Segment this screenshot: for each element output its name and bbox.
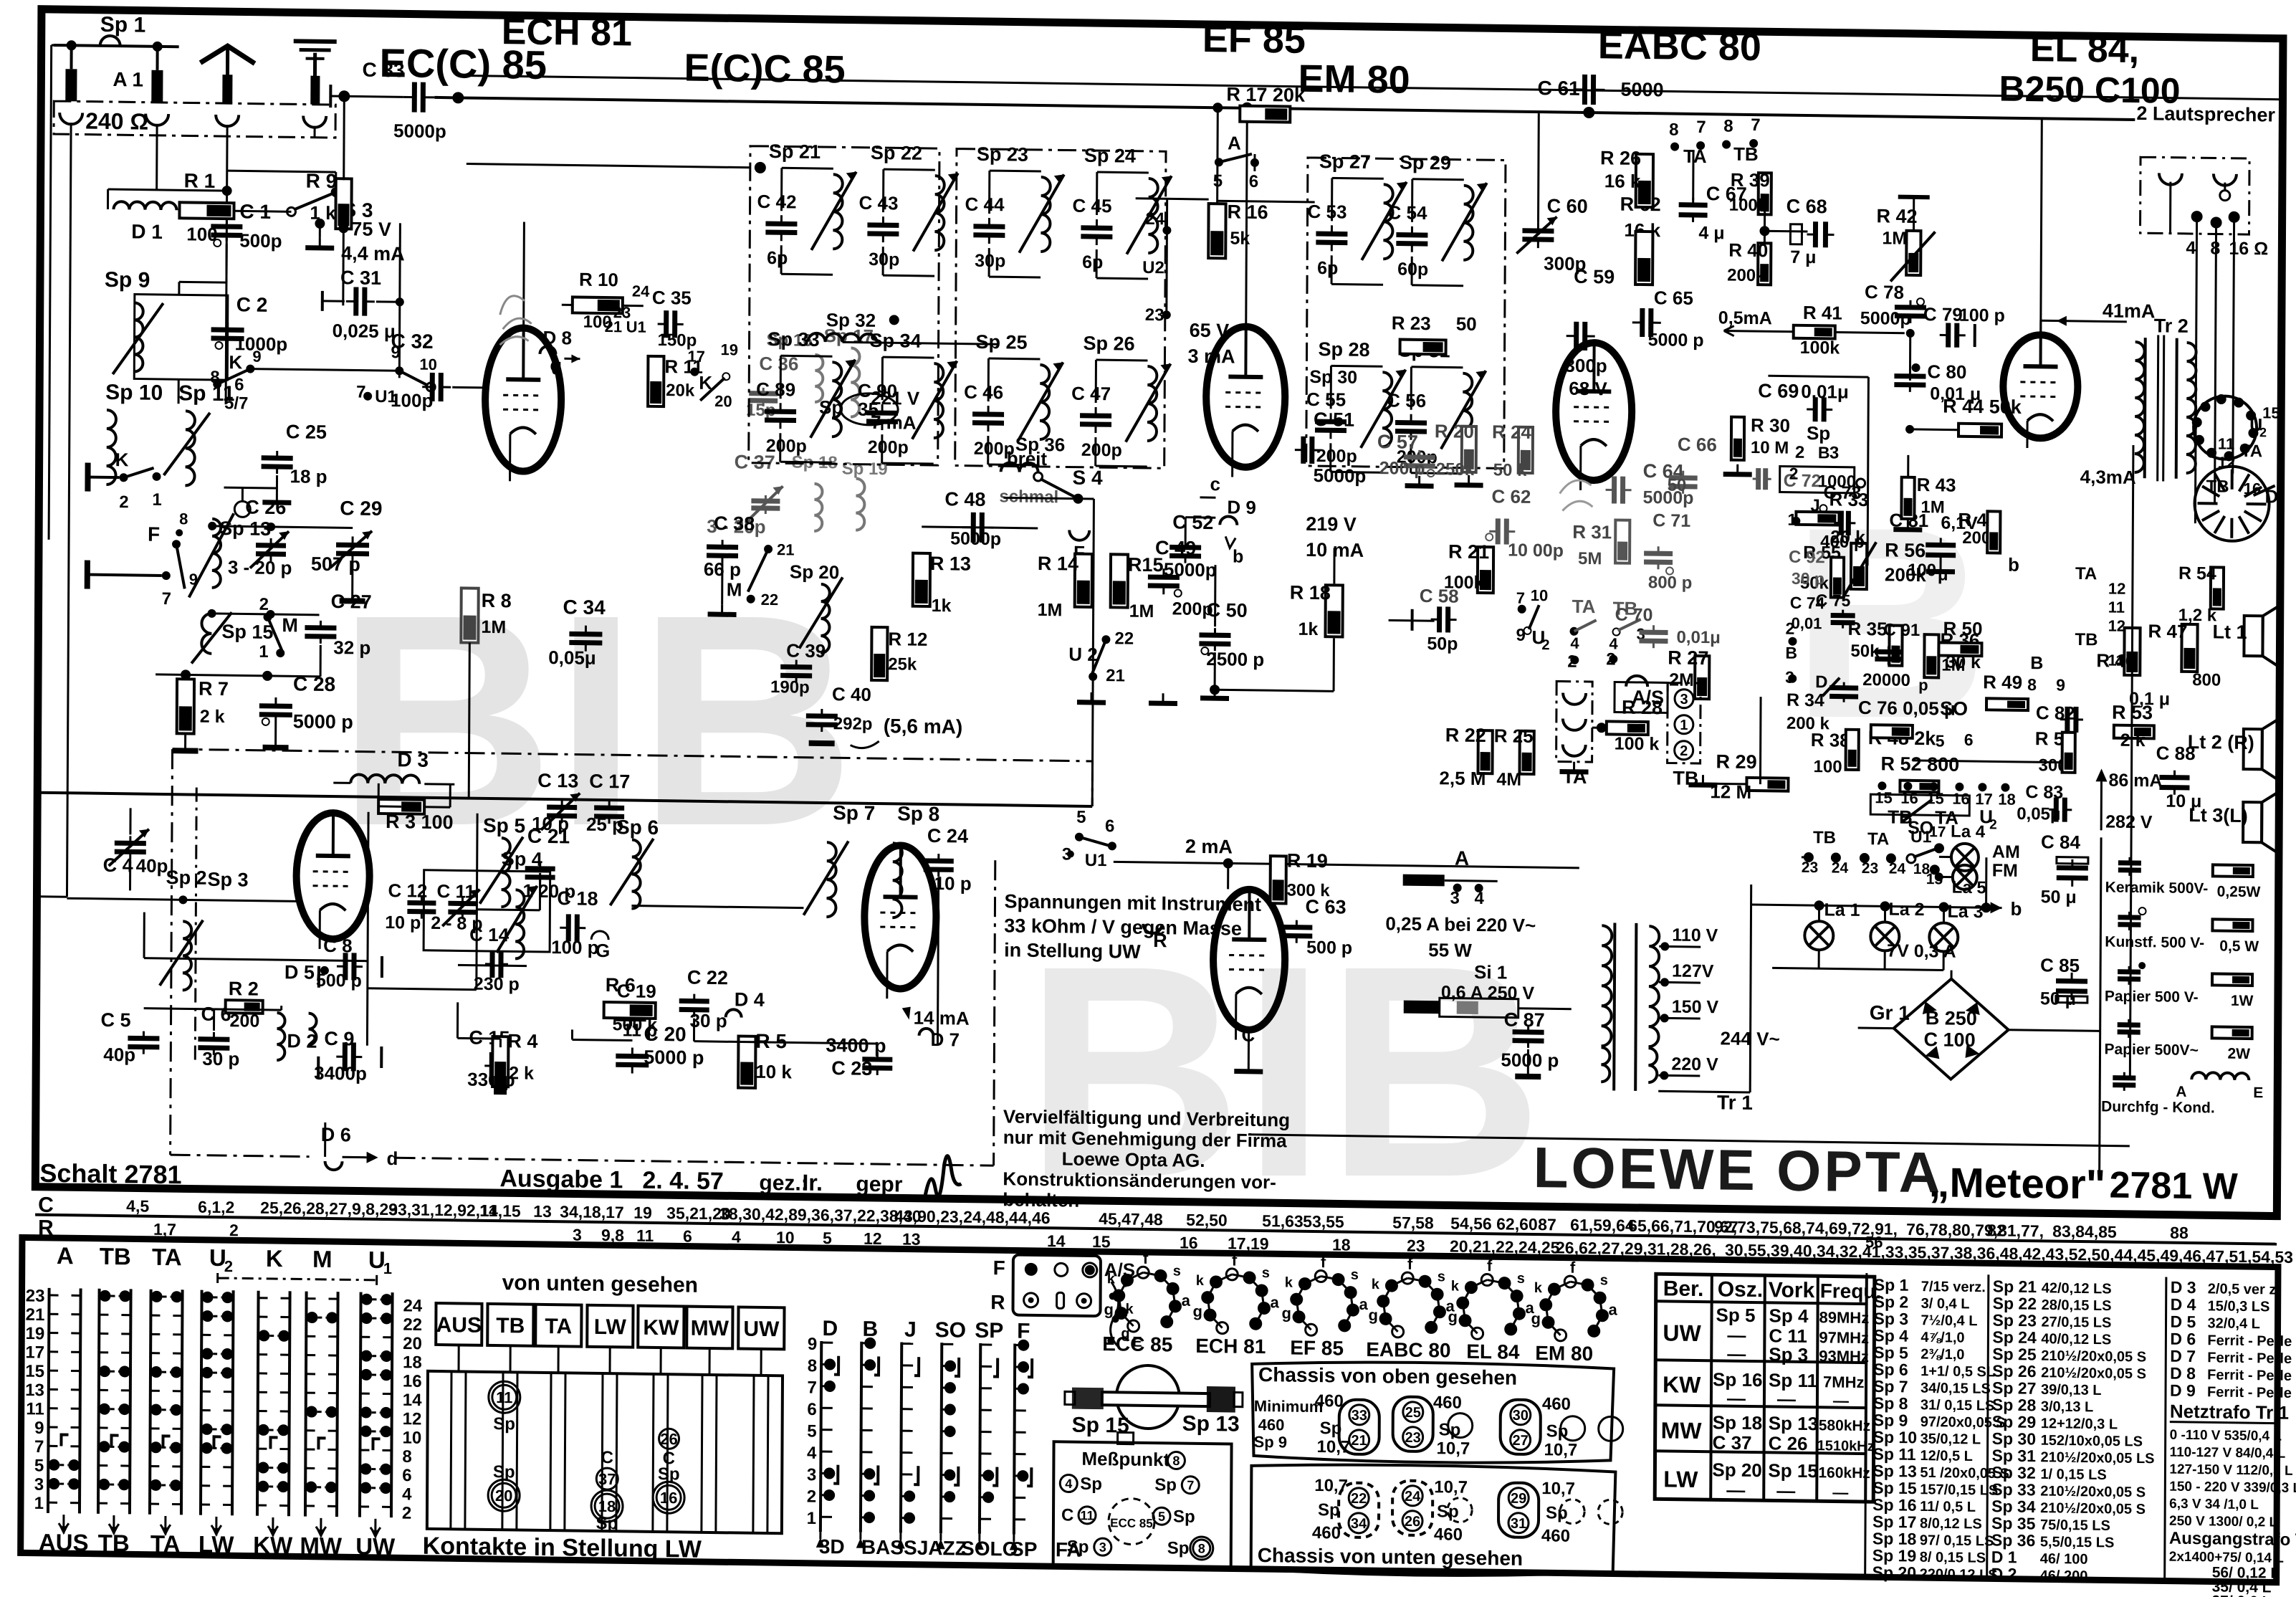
small column arrow <box>816 1538 825 1548</box>
svg-text:10,7: 10,7 <box>1541 1479 1575 1499</box>
svg-text:C 60: C 60 <box>1547 195 1588 217</box>
svg-text:50: 50 <box>1668 475 1687 495</box>
svg-text:Sp: Sp <box>1318 1500 1340 1520</box>
svg-text:C 2: C 2 <box>236 293 268 316</box>
svg-text:2: 2 <box>1795 443 1805 462</box>
resistor R10 100 <box>573 297 623 313</box>
box Sp9 C2 <box>134 294 228 380</box>
svg-text:5000p: 5000p <box>1860 308 1911 329</box>
svg-text:17: 17 <box>1929 824 1946 840</box>
svg-text:200 k: 200 k <box>1786 714 1830 734</box>
svg-text:g: g <box>1281 1304 1291 1322</box>
svg-text:f: f <box>1407 1255 1413 1273</box>
svg-text:0,01: 0,01 <box>1792 614 1822 633</box>
svg-text:C 56: C 56 <box>1387 389 1426 411</box>
column arrow K <box>268 1517 278 1533</box>
svg-text:C 33: C 33 <box>362 59 404 82</box>
svg-text:Papier 500 V-: Papier 500 V- <box>2105 988 2199 1006</box>
svg-text:SP: SP <box>1010 1538 1038 1560</box>
svg-text:0,05μ: 0,05μ <box>548 647 596 669</box>
svg-text:14: 14 <box>1047 1231 1066 1250</box>
ground TA box <box>1573 762 1575 772</box>
svg-text:9: 9 <box>34 1419 44 1438</box>
ground stub <box>314 126 316 138</box>
svg-text:MW: MW <box>300 1532 343 1559</box>
svg-text:D 8: D 8 <box>2170 1364 2196 1383</box>
svg-text:A: A <box>2176 1084 2186 1100</box>
svg-text:Sp 9: Sp 9 <box>1254 1433 1288 1451</box>
svg-text:61,59,64: 61,59,64 <box>1570 1216 1635 1235</box>
svg-text:2,5 M: 2,5 M <box>1439 767 1486 789</box>
svg-text:b: b <box>2010 898 2022 920</box>
svg-text:Sp 15: Sp 15 <box>1768 1459 1818 1482</box>
svg-text:500p: 500p <box>239 229 282 252</box>
tube EM80 envelope <box>1213 889 1286 1030</box>
svg-text:20000: 20000 <box>1862 670 1910 690</box>
svg-text:100k: 100k <box>1729 196 1768 216</box>
svg-text:34/0,15 LS: 34/0,15 LS <box>1920 1381 1991 1397</box>
svg-text:15: 15 <box>1092 1232 1111 1251</box>
svg-text:C 66: C 66 <box>1678 434 1717 456</box>
svg-text:5000 p: 5000 p <box>293 710 353 733</box>
TB socket box <box>1668 682 1701 763</box>
svg-text:TA: TA <box>1867 829 1889 849</box>
terminal ring <box>234 501 250 517</box>
svg-text:C 29: C 29 <box>340 497 382 520</box>
svg-text:5: 5 <box>1076 808 1086 827</box>
svg-text:3 - 20 p: 3 - 20 p <box>228 556 292 578</box>
svg-text:2781 W: 2781 W <box>2109 1165 2238 1208</box>
svg-text:13: 13 <box>902 1229 921 1248</box>
svg-text:3: 3 <box>1099 1540 1106 1555</box>
svg-text:R 25: R 25 <box>1494 725 1534 747</box>
capacitor C87 5000p <box>1513 1029 1544 1035</box>
svg-text:D 2: D 2 <box>287 1030 317 1052</box>
svg-text:—: — <box>1777 1388 1796 1409</box>
svg-text:39/0,13 L: 39/0,13 L <box>2041 1382 2102 1398</box>
svg-text:50 μ: 50 μ <box>2041 887 2077 907</box>
svg-text:23: 23 <box>1145 305 1164 325</box>
circled Sp 11 <box>492 1385 517 1409</box>
svg-text:TB: TB <box>496 1314 525 1338</box>
capacitor C38 66p <box>707 544 738 550</box>
svg-text:A: A <box>57 1242 74 1269</box>
svg-text:R 16: R 16 <box>1227 201 1268 223</box>
svg-text:0,5 W: 0,5 W <box>2219 938 2259 955</box>
svg-text:s: s <box>1173 1263 1181 1279</box>
svg-text:Frequ.: Frequ. <box>1820 1279 1882 1302</box>
svg-text:17: 17 <box>25 1343 44 1362</box>
svg-text:Sp 9: Sp 9 <box>105 268 150 292</box>
svg-text:C 26: C 26 <box>245 496 286 518</box>
svg-text:25,26,28,27,9,8,29: 25,26,28,27,9,8,29 <box>260 1198 398 1219</box>
svg-text:4 μ: 4 μ <box>1698 223 1724 243</box>
svg-text:7: 7 <box>1516 589 1525 607</box>
svg-text:7: 7 <box>356 383 366 402</box>
svg-text:2 k: 2 k <box>200 707 225 727</box>
svg-text:46/ 200: 46/ 200 <box>2040 1568 2088 1584</box>
capacitor C52 5000p <box>1169 545 1201 550</box>
capacitor C50 2500p <box>1199 632 1230 638</box>
svg-text:15: 15 <box>1875 788 1893 806</box>
switch contact column A0 <box>48 1288 49 1513</box>
svg-text:C 84: C 84 <box>2041 831 2081 853</box>
svg-text:K: K <box>115 449 129 470</box>
unten capsule Sp29/31 <box>1498 1482 1539 1538</box>
capacitor C31 <box>353 287 358 316</box>
svg-text:31: 31 <box>1511 1516 1526 1532</box>
svg-text:Sp 30: Sp 30 <box>1309 367 1357 388</box>
svg-text:Tr 2: Tr 2 <box>2154 315 2189 337</box>
svg-text:M: M <box>727 578 742 600</box>
capacitor C40 292p <box>806 713 838 719</box>
svg-text:4: 4 <box>732 1227 741 1246</box>
capacitor C9 3400p <box>343 1042 348 1071</box>
svg-text:25k: 25k <box>888 654 917 674</box>
svg-text:13: 13 <box>533 1202 552 1221</box>
svg-text:Netztrafo Tr 1: Netztrafo Tr 1 <box>2170 1401 2289 1424</box>
capacitor C35 150p <box>664 310 669 338</box>
svg-text:24: 24 <box>403 1296 422 1315</box>
svg-text:210½/20x0,05 S: 210½/20x0,05 S <box>2041 1365 2146 1382</box>
svg-text:Durchfg - Kond.: Durchfg - Kond. <box>2101 1098 2215 1116</box>
svg-text:6p: 6p <box>1082 252 1103 272</box>
svg-text:7½/0,4 L: 7½/0,4 L <box>1920 1312 1977 1329</box>
svg-text:4: 4 <box>1065 1477 1072 1491</box>
svg-text:31/ 0,15 LS: 31/ 0,15 LS <box>1920 1397 1995 1414</box>
svg-text:MW: MW <box>691 1317 730 1341</box>
transformer Tr1 <box>1614 923 1615 1090</box>
svg-text:C 37: C 37 <box>1713 1431 1752 1454</box>
svg-text:5: 5 <box>1936 731 1945 750</box>
wire EF85 region <box>1218 201 1315 202</box>
resistor R12 25k <box>871 627 887 680</box>
svg-text:23: 23 <box>26 1286 45 1305</box>
svg-text:11: 11 <box>496 1388 512 1406</box>
svg-text:R 40: R 40 <box>1728 239 1768 262</box>
svg-text:35: 35 <box>858 399 879 420</box>
svg-text:s: s <box>1600 1272 1608 1288</box>
small contact column SO <box>941 1343 942 1533</box>
svg-text:460: 460 <box>1434 1525 1463 1545</box>
svg-text:Lt 1: Lt 1 <box>2213 621 2247 643</box>
svg-text:2. 4. 57: 2. 4. 57 <box>642 1167 724 1195</box>
svg-text:g: g <box>1531 1310 1541 1327</box>
svg-text:C 92: C 92 <box>1789 548 1825 568</box>
svg-text:8: 8 <box>179 510 188 528</box>
svg-text:83,84,85: 83,84,85 <box>2052 1221 2117 1241</box>
svg-text:10,7: 10,7 <box>1316 1437 1350 1457</box>
svg-text:R 28: R 28 <box>1622 697 1663 719</box>
svg-text:Sp: Sp <box>1154 1475 1177 1494</box>
capacitor C33 5000p <box>412 82 417 113</box>
svg-text:27: 27 <box>1512 1433 1528 1449</box>
svg-text:1: 1 <box>34 1494 44 1513</box>
svg-text:C 11: C 11 <box>436 880 475 902</box>
svg-text:152/10x0,05 LS: 152/10x0,05 LS <box>2041 1433 2143 1450</box>
svg-text:30 p: 30 p <box>690 1010 727 1032</box>
svg-text:R 30: R 30 <box>1751 414 1790 437</box>
svg-text:97MHz: 97MHz <box>1819 1328 1869 1347</box>
svg-text:1+1/ 0,5 SL: 1+1/ 0,5 SL <box>1920 1363 1995 1380</box>
svg-text:18: 18 <box>1998 791 2016 809</box>
svg-text:C 34: C 34 <box>563 596 606 619</box>
svg-text:24: 24 <box>1405 1489 1421 1505</box>
svg-text:210½/20x0,05 S: 210½/20x0,05 S <box>2040 1483 2146 1500</box>
svg-text:C 79: C 79 <box>1923 303 1963 325</box>
svg-text:1k: 1k <box>1298 619 1318 639</box>
svg-text:11: 11 <box>2108 599 2125 616</box>
svg-text:R: R <box>38 1216 54 1240</box>
svg-text:5: 5 <box>34 1456 44 1475</box>
svg-text:18: 18 <box>598 1497 616 1515</box>
svg-text:Sp 4: Sp 4 <box>502 848 542 870</box>
resistor R2 200 <box>226 1000 263 1014</box>
svg-text:6p: 6p <box>1317 258 1338 278</box>
svg-text:200 p: 200 p <box>1379 458 1425 479</box>
wires EABC80 region <box>1594 114 1596 343</box>
capacitor C15 330p <box>489 1052 494 1079</box>
svg-text:C 54: C 54 <box>1388 201 1428 224</box>
svg-text:2: 2 <box>1786 619 1795 638</box>
svg-text:200: 200 <box>229 1011 259 1031</box>
svg-text:U1: U1 <box>626 318 646 335</box>
svg-text:23: 23 <box>1407 1236 1425 1255</box>
svg-text:TA: TA <box>152 1244 182 1271</box>
svg-text:24: 24 <box>1889 861 1906 877</box>
svg-text:TB: TB <box>98 1530 130 1557</box>
svg-text:19: 19 <box>720 340 738 358</box>
svg-text:2 mA: 2 mA <box>1185 836 1233 858</box>
legend Keramik <box>2118 860 2141 865</box>
svg-text:16: 16 <box>403 1372 422 1391</box>
svg-text:D: D <box>822 1317 838 1340</box>
svg-text:C 44: C 44 <box>965 194 1005 216</box>
svg-text:1: 1 <box>259 642 269 662</box>
svg-text:J: J <box>904 1318 917 1342</box>
svg-text:k: k <box>1372 1277 1380 1292</box>
svg-text:16: 16 <box>1180 1234 1198 1252</box>
svg-text:D 3: D 3 <box>397 748 429 771</box>
dash-dot IF box 3 <box>1306 158 1506 469</box>
svg-text:200p: 200p <box>1081 440 1122 461</box>
svg-text:460: 460 <box>1312 1523 1341 1543</box>
svg-text:TA: TA <box>1683 146 1707 167</box>
svg-text:8: 8 <box>808 1356 818 1376</box>
svg-text:TB: TB <box>2075 630 2098 649</box>
svg-text:D 4: D 4 <box>2171 1295 2196 1314</box>
resistor R40 200k <box>1758 243 1771 285</box>
svg-text:2: 2 <box>402 1504 412 1523</box>
svg-text:210½/20x0,05 S: 210½/20x0,05 S <box>2041 1348 2146 1365</box>
svg-text:Vork: Vork <box>1769 1278 1815 1302</box>
svg-text:C 26: C 26 <box>1769 1432 1808 1454</box>
svg-text:LW: LW <box>198 1531 235 1558</box>
oben capsule Sp25/23 <box>1393 1396 1433 1451</box>
svg-text:B: B <box>1818 443 1830 462</box>
svg-text:D 5: D 5 <box>2170 1312 2196 1331</box>
svg-text:C 21: C 21 <box>527 825 570 848</box>
resistor R6 500k <box>604 1002 656 1019</box>
svg-text:7: 7 <box>1751 115 1761 135</box>
svg-text:6: 6 <box>1105 816 1115 836</box>
svg-text:TA: TA <box>545 1315 572 1338</box>
svg-text:2: 2 <box>1789 464 1799 483</box>
svg-text:200p: 200p <box>868 437 909 458</box>
Tr1 taps <box>1659 945 1701 948</box>
svg-text:5000: 5000 <box>1620 79 1663 101</box>
svg-text:34: 34 <box>1351 1516 1367 1532</box>
svg-text:μ: μ <box>1938 565 1948 584</box>
tube ECH81 envelope <box>485 328 562 472</box>
svg-text:240 Ω: 240 Ω <box>85 108 148 135</box>
svg-text:3400p: 3400p <box>314 1062 367 1084</box>
svg-text:EF 85: EF 85 <box>1202 17 1306 62</box>
resistor R30 10M <box>1731 417 1744 460</box>
svg-text:La 2: La 2 <box>1888 900 1924 920</box>
svg-text:3: 3 <box>573 1225 582 1244</box>
rotary switch circle 1 <box>2194 396 2257 459</box>
svg-text:22: 22 <box>1114 629 1134 648</box>
svg-text:20k: 20k <box>666 381 695 401</box>
capacitor C24 10p <box>924 858 954 864</box>
gray tube EABC80 lower region <box>1559 480 1592 511</box>
svg-text:C 85: C 85 <box>2040 954 2080 976</box>
column arrow TA <box>161 1516 171 1532</box>
svg-text:20: 20 <box>714 392 732 410</box>
svg-text:R 39: R 39 <box>1731 169 1770 191</box>
svg-text:Sp 9: Sp 9 <box>1873 1411 1908 1430</box>
Messpunkt box <box>1053 1441 1232 1567</box>
svg-text:2: 2 <box>229 1221 239 1239</box>
svg-text:Sp 6: Sp 6 <box>1873 1360 1908 1379</box>
svg-text:Sp 26: Sp 26 <box>1084 333 1135 355</box>
svg-text:a: a <box>1359 1295 1369 1313</box>
svg-text:1 k: 1 k <box>310 202 336 224</box>
svg-text:C 58: C 58 <box>1420 585 1459 607</box>
dial cord assembly Sp15 Sp13 <box>1116 1365 1180 1429</box>
rotary switch circle 2 sunburst <box>2194 466 2269 541</box>
svg-text:D 1: D 1 <box>1991 1548 2017 1566</box>
svg-text:50: 50 <box>1456 313 1477 335</box>
svg-text:C 51: C 51 <box>1314 409 1354 431</box>
svg-text:a: a <box>1609 1300 1618 1318</box>
svg-text:30: 30 <box>1513 1408 1529 1424</box>
resistor R19 300k <box>1271 856 1286 903</box>
svg-text:8: 8 <box>2210 238 2220 258</box>
svg-text:g: g <box>1192 1302 1202 1320</box>
svg-text:9: 9 <box>808 1335 818 1354</box>
svg-text:s: s <box>1438 1269 1445 1284</box>
svg-text:16 Ω: 16 Ω <box>2229 239 2268 259</box>
svg-text:La 1: La 1 <box>1824 900 1860 920</box>
svg-text:20: 20 <box>495 1487 513 1505</box>
svg-text:1: 1 <box>383 1259 392 1277</box>
svg-text:C 20: C 20 <box>644 1023 686 1046</box>
svg-text:21: 21 <box>777 540 795 558</box>
svg-text:200k: 200k <box>1727 266 1766 286</box>
switch contact column U6 <box>360 1292 361 1517</box>
svg-text:C 22: C 22 <box>687 967 728 989</box>
svg-text:Sp 13: Sp 13 <box>1769 1412 1819 1434</box>
capacitor C13 10p <box>547 804 577 810</box>
svg-text:8/ 0,15 LS: 8/ 0,15 LS <box>1920 1550 1986 1566</box>
svg-text:3: 3 <box>807 1465 817 1484</box>
svg-text:C 13: C 13 <box>537 770 578 792</box>
svg-text:C: C <box>1061 1505 1073 1525</box>
svg-text:c: c <box>550 354 560 376</box>
capacitor C14 230p <box>489 950 494 978</box>
svg-text:292p: 292p <box>833 714 873 734</box>
svg-text:La 5: La 5 <box>1952 878 1986 898</box>
svg-text:2: 2 <box>259 595 269 614</box>
capacitor C5 40p <box>128 1036 159 1041</box>
svg-text:2: 2 <box>119 492 129 512</box>
svg-text:97/ 0,15 LS: 97/ 0,15 LS <box>1920 1532 1994 1549</box>
svg-text:6,1,2: 6,1,2 <box>198 1198 234 1217</box>
wire Sp2 row <box>67 898 296 901</box>
svg-text:UW: UW <box>743 1317 780 1342</box>
svg-text:14,15: 14,15 <box>479 1201 521 1221</box>
svg-text:C: C <box>38 1193 54 1217</box>
svg-text:38,30,42,89,36,37,22,38,40: 38,30,42,89,36,37,22,38,40 <box>719 1204 922 1226</box>
svg-text:K: K <box>229 351 242 373</box>
svg-text:5000 p: 5000 p <box>1501 1049 1559 1071</box>
svg-text:21: 21 <box>1351 1433 1367 1449</box>
svg-text:460: 460 <box>1258 1416 1285 1434</box>
svg-text:7/15 verz.: 7/15 verz. <box>1921 1279 1986 1295</box>
coil Sp9 <box>134 302 143 371</box>
svg-text:5: 5 <box>823 1229 832 1247</box>
svg-text:k: k <box>1534 1280 1543 1296</box>
svg-text:C 89: C 89 <box>756 378 795 401</box>
svg-text:C 50: C 50 <box>1207 599 1248 621</box>
svg-text:21: 21 <box>605 318 623 335</box>
svg-text:30 p: 30 p <box>202 1048 239 1070</box>
capacitor C6 30p <box>198 1036 229 1042</box>
dash-dot IF box 2 <box>955 148 1166 468</box>
svg-text:18: 18 <box>403 1353 422 1372</box>
rail 2mA <box>1114 862 1579 868</box>
svg-text:219 V: 219 V <box>1306 513 1357 535</box>
svg-text:Sp 1: Sp 1 <box>100 13 146 37</box>
svg-text:Sp: Sp <box>493 1414 515 1434</box>
svg-text:15: 15 <box>2262 404 2280 421</box>
svg-text:—: — <box>1776 1479 1795 1501</box>
svg-text:5: 5 <box>1213 171 1223 191</box>
svg-text:65 V: 65 V <box>1190 320 1230 342</box>
svg-text:R 29: R 29 <box>1716 750 1757 773</box>
svg-text:26: 26 <box>660 1430 678 1448</box>
svg-text:2: 2 <box>2259 425 2267 439</box>
svg-text:—: — <box>1727 1388 1746 1409</box>
svg-text:30 k: 30 k <box>1946 652 1981 673</box>
tube lower-left envelope <box>296 812 370 939</box>
signature squiggle <box>925 1155 961 1196</box>
switch contact column TA2 <box>150 1289 151 1515</box>
svg-text:54,56 62,60: 54,56 62,60 <box>1450 1214 1538 1234</box>
svg-text:230 p: 230 p <box>474 974 520 995</box>
svg-text:Ir.: Ir. <box>802 1170 823 1196</box>
svg-text:18 p: 18 p <box>290 465 327 487</box>
svg-text:Schalt 2781: Schalt 2781 <box>39 1158 181 1190</box>
svg-text:D 4: D 4 <box>735 988 765 1011</box>
svg-text:11: 11 <box>2108 652 2124 669</box>
svg-text:k: k <box>1285 1274 1293 1290</box>
capacitor C18 100p <box>566 914 571 941</box>
svg-text:10,7: 10,7 <box>1544 1440 1577 1460</box>
resistor R18 1k <box>1325 585 1342 637</box>
